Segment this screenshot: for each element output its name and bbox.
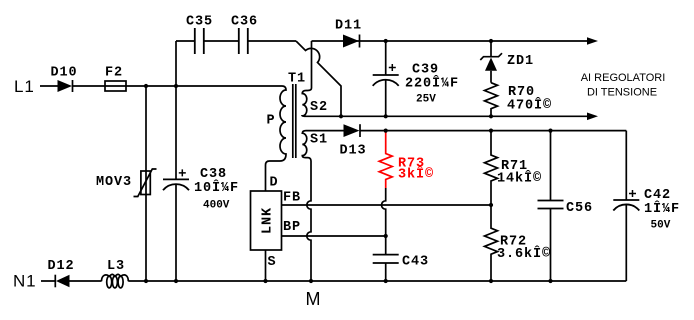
diode D12: [55, 275, 69, 288]
node dot main line x146: [144, 84, 148, 88]
diode D11: [343, 35, 360, 48]
node dot rail3 R73: [384, 129, 388, 133]
svg-text:C39: C39: [412, 63, 439, 78]
arrow rail 2 output: [587, 113, 598, 121]
resistor R70: [485, 83, 498, 117]
node dot ground x176: [174, 279, 178, 283]
wire C35/C36 branch: [176, 40, 296, 42]
svg-text:S2: S2: [310, 100, 328, 115]
transformer T1 core: [293, 84, 296, 158]
svg-text:50V: 50V: [651, 220, 671, 232]
svg-text:S1: S1: [310, 133, 328, 148]
svg-text:P: P: [267, 114, 276, 129]
node dot ground S pin: [263, 279, 267, 283]
svg-text:25V: 25V: [416, 94, 436, 106]
svg-text:1Î¼F: 1Î¼F: [644, 201, 680, 217]
svg-text:C56: C56: [566, 201, 593, 216]
node dot ground x146: [144, 279, 148, 283]
svg-text:L1: L1: [14, 77, 35, 96]
svg-text:C35: C35: [186, 15, 213, 30]
diode D13: [344, 124, 361, 137]
svg-text:M: M: [306, 289, 322, 309]
capacitor C56: [538, 131, 564, 281]
wire diagonal from C36 to node, with hop: [296, 41, 341, 116]
wire BP line: [282, 235, 386, 237]
LNK IC U1 body: [251, 191, 282, 250]
svg-text:ZD1: ZD1: [507, 54, 534, 69]
wire LNK S pin to ground: [265, 250, 267, 281]
svg-text:10Î¼F: 10Î¼F: [194, 180, 239, 196]
node dot top rail ZD1: [489, 39, 493, 43]
transformer T1 secondary S1 winding: [302, 131, 311, 161]
svg-text:C43: C43: [402, 255, 429, 270]
capacitor C43: [373, 255, 399, 281]
node dot FB R71/R72: [489, 203, 493, 207]
node dot ground C56: [548, 279, 552, 283]
svg-text:C38: C38: [200, 167, 227, 182]
transformer T1 primary P winding: [266, 86, 287, 191]
node dot ground x311 M: [309, 279, 313, 283]
wire main line L1: [40, 85, 282, 87]
wire rail 3 (D13 line): [306, 130, 626, 132]
capacitor C35: [195, 28, 204, 54]
svg-text:LNK: LNK: [261, 207, 276, 234]
node dot rail3 C56: [548, 129, 552, 133]
svg-text:D: D: [270, 176, 279, 191]
resistor R72: [485, 205, 498, 281]
wire S1 return to M with hops over FB/BP: [307, 161, 311, 281]
node dot rail3 R71: [489, 129, 493, 133]
wire top rail: [312, 40, 588, 42]
wire bottom rail: [41, 280, 626, 282]
node dot rail2 R70 bottom: [489, 114, 493, 118]
inductor L3: [102, 274, 129, 288]
node dot ground R72: [489, 279, 493, 283]
capacitor C38: [163, 86, 189, 281]
svg-text:220Î¼F: 220Î¼F: [405, 76, 459, 92]
svg-text:D11: D11: [335, 19, 362, 34]
svg-text:470Î©: 470Î©: [507, 98, 552, 114]
svg-text:N1: N1: [13, 272, 37, 291]
svg-text:S: S: [268, 255, 277, 270]
zener ZD1: [480, 41, 502, 83]
arrow top rail output: [587, 37, 598, 45]
wire R73 bottom to BP/C43 with hop over FB: [382, 188, 386, 255]
svg-text:14kÎ©: 14kÎ©: [497, 171, 542, 187]
svg-text:FB: FB: [283, 191, 301, 206]
svg-text:D12: D12: [48, 259, 75, 274]
wire vertical at x176 top: [175, 41, 177, 86]
svg-text:400V: 400V: [203, 200, 230, 212]
capacitor C42: [613, 131, 639, 281]
fuse F2: [105, 81, 126, 91]
wire rail 2 (S2 bottom out): [306, 115, 587, 117]
node dot BP C43: [384, 234, 388, 238]
varistor MOV3: [134, 86, 157, 281]
svg-text:F2: F2: [105, 66, 123, 81]
capacitor C39: [373, 41, 399, 116]
svg-text:D10: D10: [51, 66, 78, 81]
svg-text:BP: BP: [283, 220, 301, 235]
node dot top rail C39: [384, 39, 388, 43]
svg-text:3kÎ©: 3kÎ©: [398, 167, 434, 183]
svg-text:T1: T1: [288, 71, 306, 86]
svg-text:3.6kÎ©: 3.6kÎ©: [497, 246, 551, 262]
svg-text:DI TENSIONE: DI TENSIONE: [587, 86, 657, 98]
capacitor C36: [239, 28, 248, 54]
svg-text:C42: C42: [644, 188, 671, 203]
node dot rail2 x341: [339, 114, 343, 118]
node dot rail2 C39 bottom: [384, 114, 388, 118]
svg-text:C36: C36: [231, 15, 258, 30]
svg-text:D13: D13: [340, 144, 367, 159]
diode D10: [58, 80, 73, 92]
node dot main line x176: [174, 84, 178, 88]
transformer T1 secondary S2 winding: [302, 41, 311, 116]
svg-text:L3: L3: [107, 259, 125, 274]
resistor R71: [485, 131, 498, 205]
svg-text:MOV3: MOV3: [96, 175, 132, 190]
wire FB line: [282, 204, 492, 206]
resistor R73 (red): [379, 132, 392, 188]
svg-text:AI REGOLATORI: AI REGOLATORI: [581, 72, 666, 84]
node dot ground C43: [384, 279, 388, 283]
